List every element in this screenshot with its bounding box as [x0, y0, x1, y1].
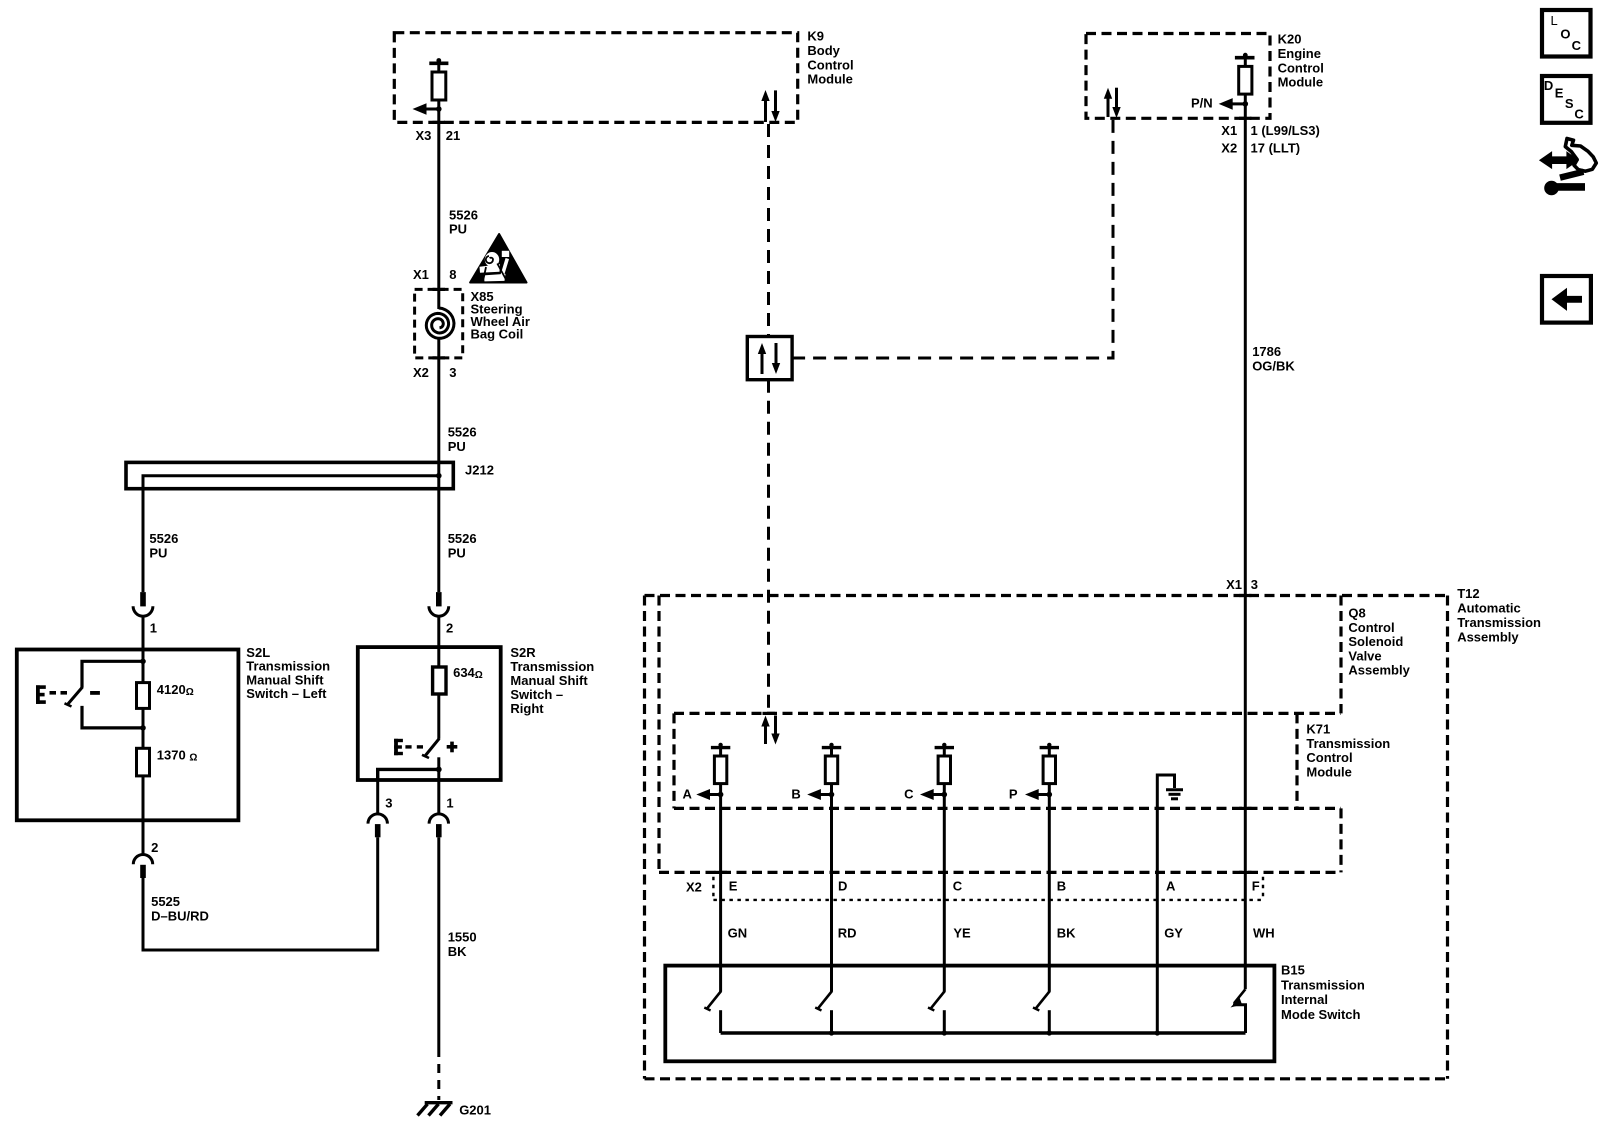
- resistor (load) inside K20: [1235, 53, 1255, 104]
- svg-text:Transmission: Transmission: [1281, 977, 1365, 992]
- svg-text:C: C: [1574, 107, 1584, 122]
- resistor (load) inside K9: [429, 58, 448, 109]
- signal arrow out of K9: [413, 103, 442, 115]
- svg-text:K20: K20: [1278, 32, 1302, 47]
- label B15 Transmission Internal Mode Switch: [1281, 963, 1365, 1022]
- svg-text:X3: X3: [415, 128, 431, 143]
- svg-text:C: C: [1572, 38, 1582, 53]
- svg-text:WH: WH: [1253, 926, 1275, 941]
- svg-text:Manual Shift: Manual Shift: [246, 672, 324, 687]
- svg-text:PU: PU: [449, 222, 467, 237]
- serial data arrows in K9: [761, 90, 779, 122]
- inline connector pin 1: [429, 814, 448, 837]
- svg-text:PU: PU: [448, 546, 466, 561]
- solenoid driver C: [904, 743, 954, 992]
- node junction top of S2L: [140, 659, 146, 665]
- svg-text:L: L: [1551, 13, 1558, 28]
- svg-text:Right: Right: [510, 701, 544, 716]
- switch E symbol S2R: [394, 739, 423, 755]
- svg-text:F: F: [1252, 879, 1260, 894]
- ground G201: [418, 1103, 492, 1118]
- svg-text:K9: K9: [807, 29, 824, 44]
- P/N arrow in K20: [1191, 96, 1248, 111]
- svg-text:Assembly: Assembly: [1457, 629, 1519, 644]
- svg-text:Transmission: Transmission: [510, 659, 594, 674]
- label 1786 OG/BK: [1252, 344, 1295, 374]
- svg-text:P/N: P/N: [1191, 96, 1213, 111]
- svg-text:YE: YE: [953, 926, 971, 941]
- pin letters E D C B A F: [729, 879, 1260, 894]
- plus sign S2R: [447, 742, 458, 753]
- svg-text:3: 3: [1251, 577, 1258, 592]
- wire out bottom of S2L: [142, 776, 145, 855]
- solenoid driver P: [1009, 743, 1059, 992]
- wire color labels GN RD YE BK GY WH: [728, 926, 1275, 941]
- switch S2L box: [17, 650, 239, 821]
- module T12 Automatic Transmission Assembly (dashed box): [645, 596, 1448, 1079]
- wire pin3 stub: [376, 780, 379, 815]
- ground symbol inside K71: [1157, 775, 1183, 1034]
- label K9 Body Control Module: [807, 29, 853, 87]
- wire into S2L: [142, 650, 145, 683]
- svg-text:Manual Shift: Manual Shift: [510, 673, 588, 688]
- inline connector pin 3: [368, 814, 387, 837]
- module K20 Engine Control Module (dashed box): [1086, 34, 1270, 119]
- mode switch wiper F: [1231, 989, 1246, 1033]
- switch blade S2L: [65, 687, 83, 707]
- label S2L Transmission Manual Shift Switch - Left: [246, 645, 330, 701]
- wire 1786 OG/BK from K20 to T12: [1244, 104, 1247, 989]
- svg-text:D: D: [838, 879, 847, 894]
- svg-text:8: 8: [449, 267, 456, 282]
- wire switch branch S2L: [82, 661, 143, 728]
- junction of ground wire A on bus: [1155, 1030, 1160, 1035]
- label T12 Automatic Transmission Assembly: [1457, 586, 1541, 644]
- svg-text:J212: J212: [465, 463, 494, 478]
- serial data arrows in K20: [1104, 88, 1121, 118]
- serial data dashed line K9 to data box: [767, 124, 770, 337]
- svg-text:E: E: [1555, 86, 1564, 101]
- wire pin1 stub: [437, 780, 440, 815]
- icon back arrow button: [1542, 276, 1591, 323]
- svg-text:1 (L99/LS3): 1 (L99/LS3): [1251, 123, 1320, 138]
- inline connector below S2L: [133, 855, 152, 878]
- wire resistor to blade S2R: [437, 694, 440, 739]
- node junction mid S2L: [140, 725, 146, 731]
- wire branch to pin 3: [378, 769, 439, 780]
- icon DESC button: [1542, 76, 1591, 123]
- svg-text:Control: Control: [1278, 60, 1324, 75]
- svg-text:X1: X1: [1221, 123, 1237, 138]
- svg-text:Switch –: Switch –: [510, 687, 563, 702]
- wire 1550 BK: [437, 837, 440, 1048]
- module K71 Transmission Control Module (dashed box): [674, 713, 1341, 808]
- label 1550 BK: [448, 930, 477, 960]
- switch E symbol S2L: [36, 685, 100, 704]
- mode switch contact E: [704, 991, 721, 1033]
- svg-text:PU: PU: [448, 439, 466, 454]
- svg-text:OG/BK: OG/BK: [1252, 359, 1295, 374]
- svg-text:P: P: [1009, 787, 1018, 802]
- label X85 Steering Wheel Air Bag Coil: [471, 289, 530, 342]
- label 5526 PU above J212: [448, 425, 477, 455]
- serial data dashed line data box to K20: [792, 118, 1113, 358]
- icon LOC button: [1542, 10, 1591, 57]
- svg-text:S: S: [1565, 96, 1574, 111]
- pins X2 3 of X85: [413, 365, 456, 380]
- junction J212: [436, 473, 442, 479]
- wire blade to junction S2R: [437, 757, 440, 780]
- serial data arrows in K71: [761, 716, 779, 745]
- svg-text:1: 1: [150, 621, 157, 636]
- svg-text:1786: 1786: [1252, 344, 1281, 359]
- svg-text:B: B: [1057, 879, 1066, 894]
- air bag warning triangle: [470, 234, 526, 283]
- coil X85 spiral: [426, 308, 454, 338]
- label S2R Transmission Manual Shift Switch - Right: [510, 645, 594, 716]
- solenoid driver B: [791, 743, 841, 992]
- switch blade S2R: [422, 738, 439, 758]
- module K9 Body Control Module (dashed box): [394, 33, 797, 123]
- svg-text:O: O: [1560, 27, 1570, 42]
- pins X1 1 (L99/LS3) X2 17 (LLT) of K20: [1221, 123, 1320, 156]
- svg-text:GY: GY: [1164, 926, 1183, 941]
- svg-text:Solenoid: Solenoid: [1348, 634, 1403, 649]
- svg-text:Bag Coil: Bag Coil: [471, 327, 524, 342]
- svg-text:X1: X1: [413, 267, 429, 282]
- icon pan/drag tool: [1540, 139, 1596, 196]
- wire crossing ticks on dashed edges: [433, 118, 1252, 872]
- resistor 1370 ohm: [137, 748, 198, 776]
- switch S2R box: [358, 647, 501, 780]
- svg-text:B: B: [791, 787, 800, 802]
- label 5526 PU left branch: [149, 531, 178, 561]
- svg-text:Module: Module: [807, 72, 853, 87]
- svg-text:Transmission: Transmission: [1457, 615, 1541, 630]
- svg-text:Engine: Engine: [1278, 46, 1321, 61]
- connector X2 of K71 (dotted row): [713, 877, 1263, 900]
- svg-text:Q8: Q8: [1348, 606, 1365, 621]
- mode switch contact D: [815, 991, 834, 1036]
- wire 5525 from S2L to S2R pin 3: [143, 837, 378, 950]
- label K71 Transmission Control Module: [1306, 722, 1390, 780]
- svg-text:D–BU/RD: D–BU/RD: [151, 909, 209, 924]
- mode switch contact B: [1033, 991, 1052, 1036]
- svg-text:RD: RD: [838, 926, 857, 941]
- svg-text:D: D: [1544, 78, 1553, 93]
- svg-text:Valve: Valve: [1348, 648, 1381, 663]
- wire through J212: [437, 462, 440, 592]
- svg-text:Body: Body: [807, 43, 840, 58]
- resistor 4120 ohm: [137, 682, 194, 709]
- svg-text:T12: T12: [1457, 586, 1479, 601]
- svg-text:2: 2: [151, 840, 158, 855]
- mode switch contact C: [928, 991, 947, 1036]
- wire splice branch in J212: [143, 476, 439, 592]
- svg-text:S2L: S2L: [246, 645, 270, 660]
- svg-text:Assembly: Assembly: [1348, 663, 1410, 678]
- pins X3 21 of K9: [415, 128, 460, 143]
- svg-text:2: 2: [446, 621, 453, 636]
- connector X85 dashed box: [415, 289, 463, 358]
- wire through X85: [437, 289, 440, 309]
- svg-text:Mode Switch: Mode Switch: [1281, 1007, 1361, 1022]
- svg-text:Switch – Left: Switch – Left: [246, 686, 327, 701]
- wire continuation to ground (dashed): [437, 1048, 440, 1100]
- serial data box with arrows: [747, 337, 792, 380]
- svg-text:BK: BK: [1057, 926, 1076, 941]
- svg-text:Module: Module: [1278, 75, 1324, 90]
- svg-text:X2: X2: [686, 880, 702, 895]
- svg-text:5526: 5526: [448, 425, 477, 440]
- svg-text:5526: 5526: [449, 208, 478, 223]
- svg-text:Control: Control: [1348, 620, 1394, 635]
- svg-text:E: E: [729, 879, 738, 894]
- bus wire inside B15: [721, 1031, 1246, 1034]
- svg-text:3: 3: [449, 365, 456, 380]
- svg-text:21: 21: [446, 128, 460, 143]
- svg-text:X2: X2: [413, 365, 429, 380]
- module Q8 Control Solenoid Valve Assembly (dashed box): [659, 596, 1341, 873]
- svg-text:Control: Control: [807, 57, 853, 72]
- label 5526 PU right branch: [448, 531, 477, 561]
- svg-text:Transmission: Transmission: [1306, 736, 1390, 751]
- resistor 634 ohm: [433, 665, 483, 694]
- inline connector on left branch (pin 1): [133, 592, 157, 649]
- svg-text:A: A: [1166, 879, 1176, 894]
- svg-text:X2: X2: [1221, 141, 1237, 156]
- svg-text:G201: G201: [459, 1103, 491, 1118]
- label 5525 D-BU/RD: [151, 894, 209, 924]
- svg-text:X1: X1: [1226, 577, 1242, 592]
- label 5526 PU: [449, 208, 478, 237]
- svg-text:C: C: [953, 879, 963, 894]
- svg-text:5525: 5525: [151, 894, 180, 909]
- svg-text:Control: Control: [1306, 750, 1352, 765]
- serial data dashed line data box to K71: [767, 380, 770, 714]
- svg-text:Automatic: Automatic: [1457, 601, 1521, 616]
- svg-text:PU: PU: [149, 546, 167, 561]
- svg-text:C: C: [904, 787, 914, 802]
- svg-text:B15: B15: [1281, 963, 1305, 978]
- svg-text:A: A: [683, 787, 693, 802]
- svg-text:GN: GN: [728, 926, 748, 941]
- label K20 Engine Control Module: [1278, 32, 1324, 90]
- svg-text:BK: BK: [448, 944, 467, 959]
- svg-text:5526: 5526: [149, 531, 178, 546]
- inline connector on right branch (pin 2): [429, 592, 453, 647]
- svg-text:Module: Module: [1306, 764, 1352, 779]
- wire 5526 PU from K9 to X85: [437, 109, 440, 289]
- svg-text:3: 3: [385, 796, 392, 811]
- switch B15 Transmission Internal Mode Switch box: [665, 966, 1274, 1062]
- solenoid driver A: [683, 743, 731, 992]
- wire between resistors S2L: [142, 708, 145, 748]
- pins X1 3 at T12: [1226, 577, 1258, 592]
- svg-text:17 (LLT): 17 (LLT): [1251, 141, 1301, 156]
- pins X1 8 of X85: [413, 267, 456, 282]
- svg-text:1550: 1550: [448, 930, 477, 945]
- wire into S2R: [437, 647, 440, 667]
- svg-text:K71: K71: [1306, 722, 1330, 737]
- svg-text:Internal: Internal: [1281, 992, 1328, 1007]
- svg-text:5526: 5526: [448, 531, 477, 546]
- splice J212 box: [126, 462, 453, 488]
- label Q8 Control Solenoid Valve Assembly: [1348, 606, 1410, 678]
- svg-text:1: 1: [446, 796, 453, 811]
- svg-text:S2R: S2R: [510, 645, 536, 660]
- pin labels 3 and 1 of S2R: [385, 796, 453, 811]
- node junction S2R: [436, 767, 442, 773]
- svg-text:Transmission: Transmission: [246, 659, 330, 674]
